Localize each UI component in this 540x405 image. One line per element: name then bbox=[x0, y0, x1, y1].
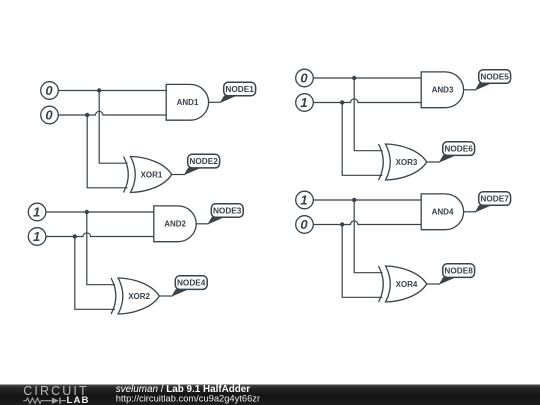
svg-text:LAB: LAB bbox=[67, 395, 90, 405]
junction: wire 1 / branch to XOR2.in2 bbox=[73, 234, 77, 238]
XOR gate XOR1 bbox=[124, 157, 172, 193]
wire: XOR2.out to NODE4 bbox=[159, 295, 172, 297]
wire: XOR4.out to NODE8 bbox=[427, 283, 440, 285]
wire: input 1 to AND2.in1 bbox=[46, 211, 154, 213]
input flag "1" (bottom input, half-adder 3) bbox=[296, 94, 314, 112]
CircuitLab logo: LAB wordmark bbox=[67, 395, 90, 405]
svg-text:0: 0 bbox=[300, 71, 308, 86]
input flag "0" (top input, half-adder 3) bbox=[296, 69, 314, 87]
svg-text:AND2: AND2 bbox=[164, 220, 186, 229]
wire: branch to XOR4.in1 bbox=[354, 200, 382, 273]
wire: XOR3.out to NODE6 bbox=[427, 161, 440, 163]
svg-text:NODE8: NODE8 bbox=[444, 267, 473, 276]
wire: branch to XOR1.in1 bbox=[99, 91, 127, 164]
svg-text:1: 1 bbox=[300, 193, 307, 208]
wire: AND3.out to NODE5 bbox=[464, 89, 476, 91]
svg-text:0: 0 bbox=[45, 83, 53, 98]
junction: wire 1 / branch to XOR4.in1 bbox=[352, 198, 356, 202]
node flag NODE6 bbox=[439, 142, 475, 163]
wire: XOR1.out to NODE2 bbox=[172, 174, 185, 176]
node flag NODE7 bbox=[475, 192, 511, 213]
node flag NODE8 bbox=[439, 264, 475, 285]
wire: input 0 to AND4.in2 (hops over crossing wire) bbox=[313, 221, 421, 225]
svg-text:0: 0 bbox=[45, 108, 53, 123]
input flag "0" (bottom input, half-adder 4) bbox=[296, 216, 314, 234]
wire: branch to XOR1.in2 bbox=[87, 115, 127, 188]
input flag "1" (top input, half-adder 2) bbox=[28, 203, 46, 221]
node flag NODE3 bbox=[207, 204, 243, 225]
wire: input 1 to AND3.in2 (hops over crossing wire) bbox=[313, 99, 421, 103]
wire: AND2.out to NODE3 bbox=[196, 223, 208, 225]
footer credit line: sveluman / Lab 9.1 HalfAdder bbox=[116, 384, 251, 395]
wire: input 1 to AND2.in2 (hops over crossing wire) bbox=[46, 233, 154, 237]
svg-text:0: 0 bbox=[300, 217, 308, 232]
wire: AND1.out to NODE1 bbox=[209, 101, 221, 103]
wire: branch to XOR3.in1 bbox=[354, 78, 382, 151]
junction: wire 0 / branch to XOR3.in1 bbox=[352, 76, 356, 80]
wire: AND4.out to NODE7 bbox=[464, 211, 476, 213]
wire: branch to XOR3.in2 bbox=[342, 103, 382, 176]
svg-text:http://circuitlab.com/cu9a2g4y: http://circuitlab.com/cu9a2g4yt66zr bbox=[116, 393, 260, 403]
node flag NODE2 bbox=[184, 154, 220, 175]
svg-text:NODE5: NODE5 bbox=[480, 73, 509, 82]
XOR gate XOR2 bbox=[111, 278, 159, 314]
svg-text:1: 1 bbox=[33, 229, 40, 244]
junction: wire 1 / branch to XOR3.in2 bbox=[340, 100, 344, 104]
wire: branch to XOR2.in2 bbox=[75, 237, 115, 310]
AND gate AND1 bbox=[166, 84, 208, 120]
svg-text:AND1: AND1 bbox=[177, 98, 199, 107]
wire: branch to XOR2.in1 bbox=[87, 212, 115, 285]
junction: wire 1 / branch to XOR2.in1 bbox=[85, 210, 89, 214]
junction: wire 0 / branch to XOR1.in2 bbox=[85, 113, 89, 117]
CircuitLab logo: resistor-diode glyph bbox=[24, 398, 67, 404]
junction: wire 0 / branch to XOR1.in1 bbox=[97, 88, 101, 92]
wire: input 1 to AND4.in1 bbox=[313, 199, 421, 201]
XOR gate XOR4 bbox=[379, 266, 427, 302]
XOR gate XOR3 bbox=[379, 144, 427, 180]
input flag "0" (top input, half-adder 1) bbox=[41, 82, 59, 100]
svg-text:NODE6: NODE6 bbox=[444, 145, 473, 154]
svg-text:1: 1 bbox=[300, 95, 307, 110]
svg-text:NODE4: NODE4 bbox=[177, 279, 206, 288]
CircuitLab logo: CIRCUIT wordmark bbox=[23, 384, 88, 398]
svg-text:1: 1 bbox=[33, 205, 40, 220]
svg-text:AND3: AND3 bbox=[432, 86, 454, 95]
svg-text:NODE2: NODE2 bbox=[189, 157, 218, 166]
svg-text:NODE1: NODE1 bbox=[225, 85, 254, 94]
junction: wire 0 / branch to XOR4.in2 bbox=[340, 222, 344, 226]
node flag NODE5 bbox=[475, 70, 511, 91]
AND gate AND2 bbox=[154, 206, 196, 242]
svg-text:NODE7: NODE7 bbox=[480, 195, 509, 204]
svg-text:XOR4: XOR4 bbox=[396, 280, 418, 289]
footer url line bbox=[116, 393, 260, 403]
svg-text:NODE3: NODE3 bbox=[213, 207, 242, 216]
svg-text:XOR3: XOR3 bbox=[396, 158, 418, 167]
footer bar bbox=[0, 385, 540, 405]
input flag "1" (top input, half-adder 4) bbox=[296, 191, 314, 209]
node flag NODE1 bbox=[220, 82, 256, 103]
input flag "0" (bottom input, half-adder 1) bbox=[41, 106, 59, 124]
svg-text:XOR1: XOR1 bbox=[141, 171, 163, 180]
AND gate AND3 bbox=[421, 72, 463, 108]
svg-text:AND4: AND4 bbox=[432, 208, 454, 217]
svg-text:XOR2: XOR2 bbox=[128, 292, 150, 301]
input flag "1" (bottom input, half-adder 2) bbox=[28, 228, 46, 246]
AND gate AND4 bbox=[421, 194, 463, 230]
node flag NODE4 bbox=[171, 276, 207, 297]
wire: input 0 to AND3.in1 bbox=[313, 77, 421, 79]
wire: input 0 to AND1.in1 bbox=[58, 90, 166, 92]
wire: branch to XOR4.in2 bbox=[342, 225, 382, 298]
wire: input 0 to AND1.in2 (hops over crossing wire) bbox=[58, 111, 166, 115]
